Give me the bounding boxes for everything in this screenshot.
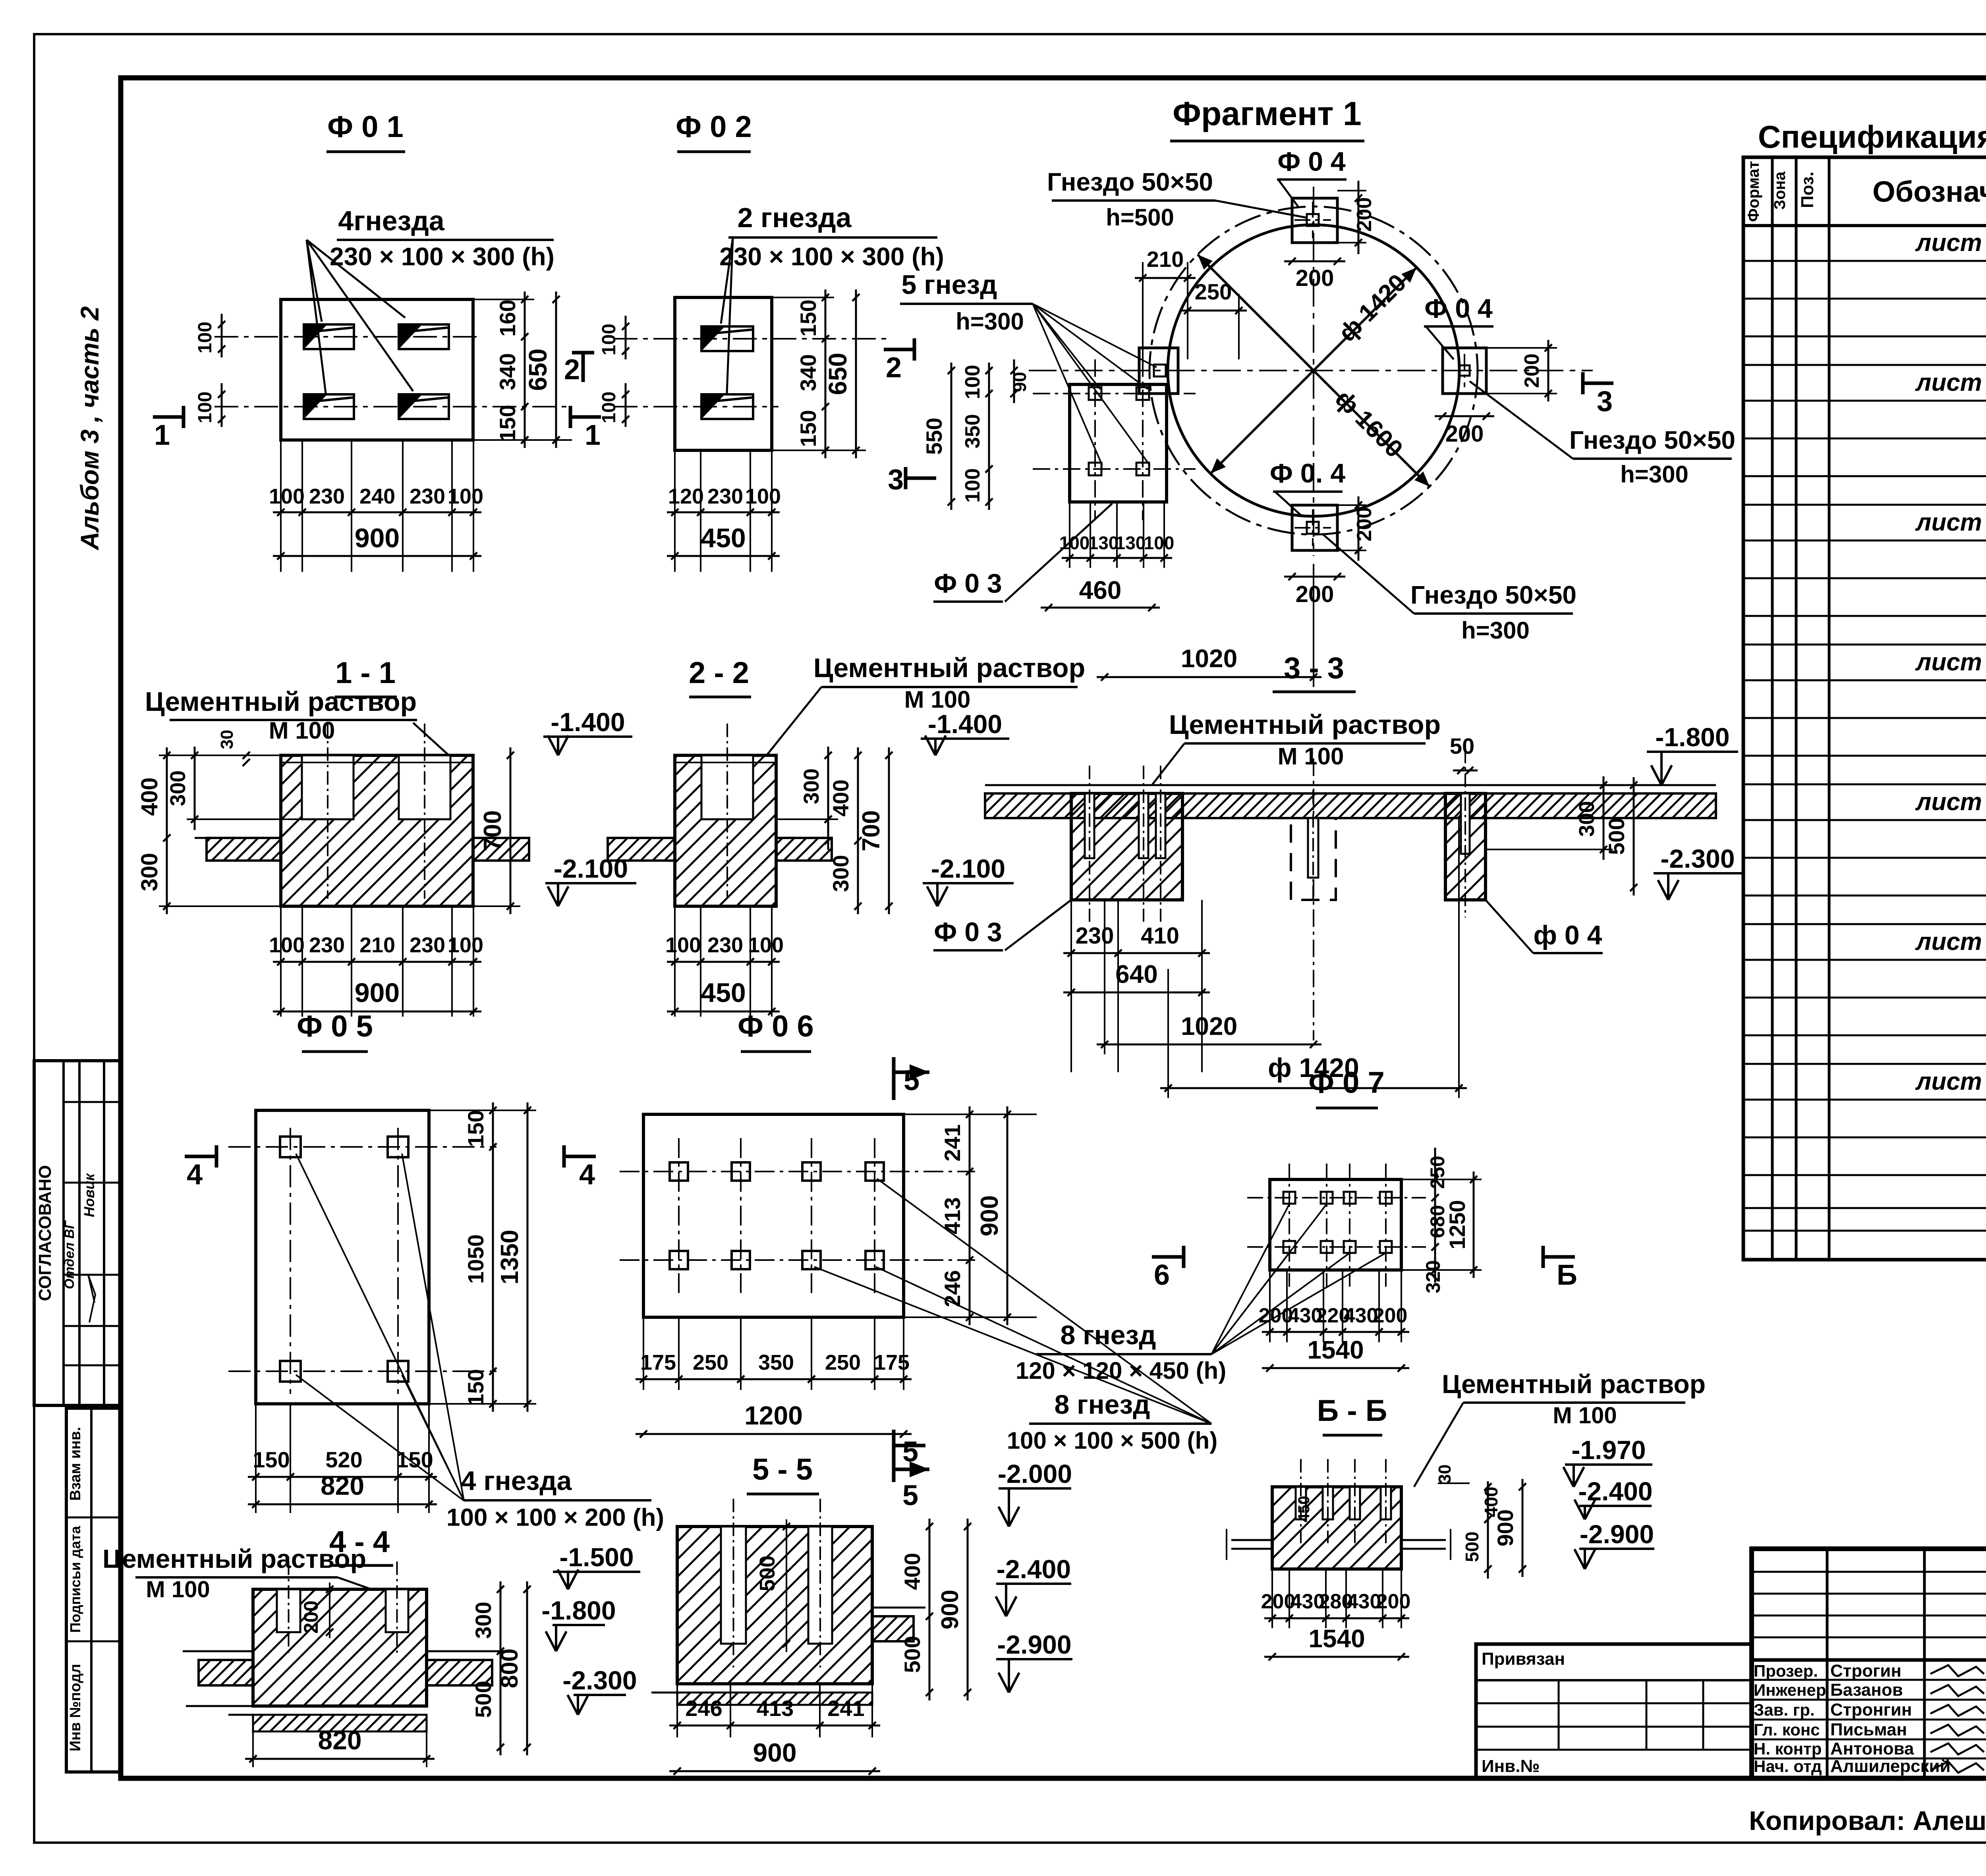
- dim 100 left upper Ф01: [221, 314, 223, 357]
- svg-text:241: 241: [827, 1696, 864, 1721]
- svg-text:210: 210: [359, 933, 395, 957]
- dims 300 500 left col right of 4-4: [500, 1581, 502, 1755]
- svg-text:Ф 0. 4: Ф 0. 4: [1270, 458, 1346, 488]
- plan Ф05 outline: [256, 1110, 429, 1404]
- svg-text:300: 300: [471, 1602, 496, 1639]
- svg-text:2 гнезда: 2 гнезда: [738, 202, 852, 233]
- svg-text:Отдел ВГ: Отдел ВГ: [62, 1220, 77, 1289]
- svg-text:-1.400: -1.400: [928, 709, 1002, 739]
- svg-text:300: 300: [137, 853, 162, 892]
- socket Ф02 top: [701, 326, 753, 351]
- svg-text:-1.970: -1.970: [1571, 1435, 1646, 1465]
- svg-text:-2.900: -2.900: [997, 1630, 1071, 1659]
- plan Ф02 outline: [675, 297, 772, 450]
- dims 250 680 320 right of Ф07: [1401, 1179, 1482, 1180]
- diagonal Ф1420 with arrows: [1211, 268, 1416, 473]
- floor slab right 2-2: [776, 838, 832, 861]
- dim 160 340 150 right of Ф01: [473, 299, 534, 300]
- dim 1540 under Ф07: [1262, 1367, 1409, 1369]
- leaders 4 гнезда Ф05: [296, 1154, 464, 1501]
- svg-text:100 × 100 × 500 (h): 100 × 100 × 500 (h): [1007, 1427, 1217, 1454]
- svg-text:500: 500: [1462, 1532, 1482, 1562]
- svg-text:200: 200: [1296, 581, 1334, 607]
- svg-text:250: 250: [693, 1351, 728, 1374]
- dim 100 left upper Ф02: [625, 316, 627, 359]
- dim 650 right of Ф02: [855, 290, 857, 458]
- dim 200 right of south footing: [1337, 504, 1366, 506]
- svg-text:500: 500: [755, 1556, 779, 1591]
- section mark 3 right of fragment: [1583, 382, 1613, 385]
- svg-text:100: 100: [599, 324, 620, 355]
- leaders from 5 гнезд to sockets: [1033, 304, 1100, 389]
- svg-text:250: 250: [1426, 1156, 1449, 1189]
- dim chain 230 410 under 3-3: [1070, 900, 1072, 1072]
- svg-text:500: 500: [1604, 818, 1629, 855]
- centrelines Ф06 rows: [620, 1171, 975, 1172]
- svg-text:Фрагмент 1: Фрагмент 1: [1173, 95, 1362, 132]
- svg-text:Инв №подл: Инв №подл: [67, 1664, 84, 1751]
- section mark 2 upper right of Ф01: [582, 353, 585, 382]
- socket slots 5-5: [721, 1527, 746, 1644]
- dim 50 above 3-3: [1453, 770, 1478, 772]
- dim 1200 under Ф06: [636, 1433, 912, 1435]
- svg-text:лист 26: лист 26: [1915, 1068, 1986, 1095]
- svg-text:100: 100: [1059, 533, 1090, 553]
- svg-text:h=300: h=300: [956, 308, 1024, 335]
- svg-text:Гнездо 50×50: Гнездо 50×50: [1047, 168, 1213, 196]
- svg-text:-1.500: -1.500: [559, 1542, 634, 1572]
- svg-text:8 гнезд: 8 гнезд: [1061, 1320, 1156, 1350]
- svg-text:М 100: М 100: [146, 1577, 210, 1602]
- steel stub right 6-6: [1401, 1539, 1446, 1541]
- svg-text:Б: Б: [1557, 1259, 1577, 1291]
- svg-text:Инженер: Инженер: [1754, 1681, 1826, 1699]
- svg-text:-2.300: -2.300: [562, 1666, 637, 1695]
- svg-text:-2.300: -2.300: [1660, 844, 1735, 873]
- svg-text:Формат: Формат: [1745, 161, 1762, 222]
- svg-text:230: 230: [707, 484, 743, 508]
- socket slot right 1-1: [399, 755, 450, 819]
- dim 200 under north footing: [1284, 261, 1345, 262]
- section 2-2 concrete block: [675, 755, 776, 906]
- svg-text:3: 3: [888, 464, 904, 496]
- svg-text:210: 210: [1147, 247, 1184, 272]
- svg-text:-1.400: -1.400: [551, 707, 625, 737]
- svg-text:300: 300: [166, 770, 190, 806]
- svg-text:150: 150: [796, 410, 821, 447]
- svg-text:Цементный раствор: Цементный раствор: [1442, 1369, 1706, 1399]
- svg-text:900: 900: [753, 1738, 796, 1767]
- floor slab right 4-4: [427, 1660, 492, 1685]
- socket squares Ф07 bottom row: [1283, 1241, 1295, 1253]
- plan Ф06 outline: [643, 1114, 904, 1317]
- svg-text:1: 1: [154, 419, 170, 451]
- svg-text:1200: 1200: [744, 1401, 803, 1430]
- dim 800 right of 4-4: [526, 1581, 528, 1755]
- dim 460 under Ф03: [1041, 607, 1160, 609]
- svg-text:250: 250: [1195, 279, 1232, 304]
- dim 300 socket left of 1-1: [187, 818, 302, 820]
- dim chain 175 250 350 250 175 under Ф06: [643, 1317, 644, 1390]
- mortar line 2-2: [675, 762, 776, 763]
- svg-text:230: 230: [309, 484, 345, 508]
- svg-text:1050: 1050: [463, 1234, 488, 1284]
- svg-text:-1.800: -1.800: [541, 1596, 616, 1625]
- plan Ф01 outline: [281, 299, 473, 440]
- dim 1250 right of Ф07: [1473, 1172, 1475, 1278]
- svg-text:550: 550: [922, 418, 947, 455]
- footing Ф04 north: [1292, 198, 1337, 243]
- left sidebar inventory strip: [66, 1408, 121, 1772]
- svg-text:820: 820: [321, 1471, 364, 1500]
- dim 900 right of Ф06: [1007, 1106, 1008, 1325]
- dim 900 under Ф01: [273, 555, 481, 557]
- dim chain 200 430 220 430 200 under Ф07: [1269, 1270, 1271, 1342]
- svg-text:Подписьи дата: Подписьи дата: [67, 1526, 83, 1633]
- leader lines to sockets of Ф01: [307, 240, 322, 322]
- svg-text:100: 100: [665, 933, 701, 957]
- svg-text:120: 120: [668, 484, 704, 508]
- svg-text:340: 340: [796, 354, 821, 391]
- svg-text:Гл. конс: Гл. конс: [1754, 1720, 1820, 1739]
- svg-text:Копировал: Алешикова: Копировал: Алешикова: [1749, 1806, 1986, 1836]
- svg-text:230 × 100 × 300 (h): 230 × 100 × 300 (h): [719, 242, 944, 271]
- svg-text:175: 175: [640, 1351, 676, 1374]
- svg-text:лист 26: лист 26: [1915, 788, 1986, 816]
- socket squares Ф06 top row: [670, 1162, 688, 1181]
- dim 200 under south footing: [1284, 576, 1345, 578]
- svg-text:Взам инв.: Взам инв.: [67, 1427, 84, 1501]
- section mark 5 above Ф06: [892, 1057, 896, 1100]
- diagonal Ф1600 with arrows: [1198, 255, 1430, 486]
- centrelines Ф07 columns: [1289, 1164, 1290, 1287]
- svg-text:h=300: h=300: [1620, 461, 1688, 488]
- svg-text:М 100: М 100: [1553, 1403, 1617, 1428]
- svg-text:2: 2: [886, 352, 902, 384]
- dim Ф1420 under 3-3: [1167, 969, 1169, 1098]
- svg-text:Письман: Письман: [1830, 1720, 1907, 1739]
- svg-text:100: 100: [1144, 533, 1175, 553]
- footing Ф04 east: [1443, 348, 1486, 394]
- svg-text:400: 400: [900, 1553, 925, 1590]
- slot in Ф04 cut: [1461, 793, 1470, 854]
- svg-text:650: 650: [524, 349, 552, 391]
- dim 1020 under fragment: [1313, 564, 1314, 687]
- svg-text:-2.000: -2.000: [998, 1459, 1072, 1488]
- dim chain 100 230 100 under section 2-2: [674, 906, 676, 1017]
- svg-text:Ф 0 2: Ф 0 2: [676, 110, 752, 144]
- svg-text:лист 26: лист 26: [1915, 369, 1986, 396]
- floor slab left 4-4: [199, 1660, 253, 1685]
- dim 1020 under 3-3: [1104, 900, 1105, 1054]
- section mark 5 flag at 5-5: [892, 1439, 896, 1482]
- circle Ф1420 solid: [1168, 225, 1459, 516]
- svg-text:246: 246: [685, 1696, 722, 1721]
- svg-text:2: 2: [564, 354, 580, 386]
- centreline upper row Ф01: [214, 336, 479, 338]
- svg-text:Ф 0 1: Ф 0 1: [327, 110, 404, 144]
- ground strip under 5-5: [651, 1692, 872, 1694]
- section 6-6 concrete block: [1272, 1487, 1401, 1569]
- centrelines Ф06 columns: [678, 1138, 680, 1295]
- svg-text:Цементный раствор: Цементный раствор: [813, 653, 1085, 683]
- svg-text:1020: 1020: [1181, 1012, 1237, 1040]
- dim 250 above Ф03: [1238, 294, 1240, 359]
- svg-text:Цементный раствор: Цементный раствор: [102, 1544, 366, 1573]
- specification table grid: [1743, 157, 1986, 1260]
- floor slab right 1-1: [473, 838, 529, 861]
- centrelines Ф03 plan: [1033, 393, 1196, 394]
- svg-text:Новик: Новик: [81, 1173, 97, 1217]
- svg-text:3 - 3: 3 - 3: [1284, 651, 1344, 685]
- svg-text:230: 230: [1076, 923, 1114, 949]
- svg-text:150: 150: [463, 1110, 488, 1147]
- svg-text:175: 175: [874, 1351, 910, 1374]
- svg-text:Стронгин: Стронгин: [1830, 1700, 1912, 1720]
- svg-text:200: 200: [1520, 353, 1544, 388]
- svg-text:100: 100: [269, 933, 305, 957]
- svg-text:Н. контр: Н. контр: [1754, 1739, 1822, 1758]
- svg-text:900: 900: [937, 1590, 963, 1629]
- svg-text:450: 450: [701, 978, 746, 1008]
- svg-text:Ф 0 3: Ф 0 3: [934, 568, 1002, 598]
- dim 450 under section 2-2: [667, 1011, 780, 1013]
- svg-text:Нач. отд: Нач. отд: [1754, 1757, 1822, 1776]
- svg-text:h=500: h=500: [1106, 204, 1174, 231]
- dim chain 120 230 100 under Ф02: [674, 450, 676, 572]
- section mark 6 left of Ф07: [1152, 1255, 1184, 1259]
- svg-text:130: 130: [1115, 533, 1146, 553]
- svg-text:100: 100: [448, 933, 483, 957]
- svg-text:100: 100: [448, 484, 483, 508]
- dim 200 right of north footing: [1337, 190, 1366, 191]
- svg-text:-2.900: -2.900: [1580, 1519, 1654, 1549]
- svg-text:Ф 0 7: Ф 0 7: [1308, 1066, 1385, 1100]
- svg-text:50: 50: [1450, 733, 1474, 759]
- dim 210 above Ф03: [1142, 262, 1144, 359]
- svg-text:520: 520: [325, 1447, 362, 1472]
- svg-text:3: 3: [1597, 386, 1613, 417]
- svg-text:Ф 0 3: Ф 0 3: [934, 917, 1002, 947]
- svg-text:413: 413: [757, 1696, 794, 1721]
- svg-text:400: 400: [137, 778, 162, 816]
- svg-text:800: 800: [496, 1648, 523, 1688]
- svg-text:Зона: Зона: [1771, 171, 1789, 210]
- svg-text:120 × 120 × 450 (h): 120 × 120 × 450 (h): [1016, 1357, 1226, 1384]
- horizontal centreline of fragment: [1029, 370, 1593, 371]
- dim 700 right of 2-2: [888, 747, 890, 914]
- mortar line 1-1: [281, 762, 473, 763]
- title block signature rows: [1752, 1679, 1986, 1681]
- svg-text:200: 200: [1445, 421, 1484, 447]
- title block outline: [1752, 1549, 1986, 1778]
- socket squares Ф07 top row: [1283, 1192, 1295, 1204]
- svg-text:Цементный раствор: Цементный раствор: [1169, 710, 1441, 740]
- slab top line 3-3: [985, 784, 1716, 786]
- svg-text:Строгин: Строгин: [1830, 1661, 1901, 1681]
- section mark 2 right of Ф02: [884, 348, 914, 351]
- svg-text:Ф 0 4: Ф 0 4: [1424, 293, 1493, 324]
- svg-text:100 × 100 × 200 (h): 100 × 100 × 200 (h): [446, 1504, 664, 1531]
- dim 100 left lower Ф01: [221, 383, 223, 427]
- svg-text:200: 200: [1373, 1304, 1408, 1327]
- dims 400 500 right of 5-5: [929, 1519, 931, 1700]
- socket squares Ф03: [1089, 387, 1101, 400]
- svg-text:Привязан: Привязан: [1482, 1649, 1565, 1669]
- svg-text:246: 246: [940, 1270, 965, 1307]
- dim chain 100 130 130 100 under Ф03: [1069, 502, 1070, 568]
- svg-text:1350: 1350: [496, 1230, 524, 1285]
- socket squares Ф06 bottom row: [670, 1251, 688, 1269]
- dashed middle footing 3-3: [1291, 818, 1336, 900]
- svg-text:-2.400: -2.400: [997, 1554, 1071, 1584]
- svg-text:лист 26: лист 26: [1915, 229, 1986, 257]
- svg-text:лист 26: лист 26: [1915, 928, 1986, 955]
- socket slot 2-2: [701, 755, 753, 819]
- steel stub left 6-6: [1231, 1539, 1272, 1541]
- dim 900 right of 6-6: [1522, 1479, 1524, 1577]
- svg-text:150: 150: [253, 1447, 290, 1472]
- centreline upper row Ф02: [614, 338, 890, 340]
- dim 820 under Ф05: [248, 1504, 437, 1505]
- leaders to sockets of Ф02: [721, 237, 733, 324]
- svg-text:200: 200: [300, 1600, 322, 1633]
- svg-text:650: 650: [823, 353, 852, 395]
- svg-text:5 гнезд: 5 гнезд: [902, 270, 997, 300]
- svg-text:СОГЛАСОВАНО: СОГЛАСОВАНО: [35, 1165, 55, 1301]
- svg-text:Зав. гр.: Зав. гр.: [1754, 1700, 1815, 1719]
- dim 1540 under 6-6: [1264, 1656, 1409, 1658]
- socket Ф01 bottom-right: [399, 394, 449, 419]
- floor slab left 2-2: [608, 838, 675, 861]
- svg-text:100: 100: [599, 392, 620, 423]
- svg-text:1250: 1250: [1445, 1200, 1470, 1250]
- svg-text:241: 241: [940, 1124, 965, 1161]
- svg-text:100: 100: [195, 392, 216, 423]
- svg-text:230: 230: [410, 484, 445, 508]
- svg-text:200: 200: [1353, 507, 1376, 542]
- footing Ф03 cut 3-3: [1071, 793, 1182, 900]
- floor slab left 1-1: [207, 838, 281, 861]
- section 4-4 concrete block: [253, 1589, 427, 1706]
- socket Ф01 bottom-left: [304, 394, 354, 419]
- dims 150 1050 150 right of Ф05: [429, 1110, 536, 1111]
- svg-text:Альбом 3 , часть 2: Альбом 3 , часть 2: [75, 306, 104, 551]
- plan Ф03 in fragment: [1070, 384, 1167, 502]
- dim 100 left lower Ф02: [625, 383, 627, 427]
- svg-text:5: 5: [902, 1436, 918, 1468]
- svg-text:350: 350: [758, 1351, 794, 1374]
- centreline lower row Ф01: [214, 406, 568, 407]
- svg-text:450: 450: [1295, 1496, 1313, 1523]
- svg-text:900: 900: [976, 1195, 1003, 1236]
- svg-text:6: 6: [1154, 1259, 1170, 1291]
- socket slot left 1-1: [302, 755, 354, 819]
- svg-text:500: 500: [471, 1681, 496, 1718]
- Привязан box: [1476, 1644, 1752, 1778]
- leaders 8 гнезд to Ф07 squares: [1211, 1204, 1289, 1354]
- svg-text:1: 1: [585, 419, 601, 451]
- svg-text:-2.400: -2.400: [1578, 1476, 1652, 1506]
- section mark 1 right of Ф01: [570, 415, 601, 419]
- leaders 8 гнезд to Ф06 squares: [814, 1267, 1211, 1424]
- svg-text:200: 200: [1376, 1590, 1411, 1613]
- svg-text:200: 200: [1296, 265, 1334, 291]
- dims 300 400 right of 2-2: [776, 818, 838, 820]
- svg-text:350: 350: [961, 414, 984, 449]
- svg-text:лист 26: лист 26: [1915, 509, 1986, 536]
- svg-text:5 - 5: 5 - 5: [752, 1453, 813, 1486]
- dims 300 500 right of 3-3: [1486, 849, 1613, 850]
- svg-text:640: 640: [1115, 960, 1158, 988]
- svg-text:100: 100: [269, 484, 305, 508]
- svg-text:230: 230: [707, 933, 743, 957]
- socket squares Ф05: [280, 1137, 301, 1157]
- socket Ф01 top-left: [304, 324, 354, 349]
- dim 550 left of Ф03: [950, 363, 952, 510]
- dim 820 under 4-4: [252, 1731, 254, 1767]
- svg-text:150: 150: [796, 299, 821, 336]
- svg-text:320: 320: [1422, 1260, 1444, 1293]
- svg-text:М 100: М 100: [269, 717, 335, 744]
- dim 1350 right of Ф05: [527, 1102, 529, 1412]
- svg-text:Б - Б: Б - Б: [1317, 1394, 1387, 1428]
- svg-text:Ф 0 6: Ф 0 6: [738, 1009, 814, 1043]
- svg-text:300: 300: [828, 855, 853, 892]
- dim chain 200 430 280 430 200 under 6-6: [1271, 1569, 1273, 1628]
- svg-text:-1.800: -1.800: [1655, 722, 1729, 752]
- svg-text:340: 340: [495, 353, 520, 390]
- svg-text:Ф 0 5: Ф 0 5: [297, 1009, 373, 1043]
- svg-text:1540: 1540: [1307, 1336, 1364, 1364]
- svg-text:30: 30: [1435, 1465, 1455, 1484]
- svg-text:300: 300: [800, 768, 823, 804]
- svg-text:Цементный раствор: Цементный раствор: [145, 687, 417, 717]
- centrelines Ф07 rows: [1247, 1197, 1426, 1199]
- dim chain 100 230 210 230 100 under section 1-1: [280, 906, 282, 1017]
- svg-text:Базанов: Базанов: [1830, 1680, 1903, 1700]
- svg-text:413: 413: [940, 1197, 965, 1234]
- svg-text:200: 200: [1353, 197, 1376, 232]
- svg-text:700: 700: [858, 810, 885, 851]
- svg-text:Спецификация фундаментов под о: Спецификация фундаментов под оборудовани…: [1758, 119, 1986, 154]
- svg-text:4: 4: [579, 1159, 595, 1191]
- dim 200 right of east footing: [1486, 347, 1557, 349]
- svg-text:4: 4: [187, 1159, 203, 1191]
- plan Ф07 outline: [1270, 1179, 1401, 1270]
- svg-text:-2.100: -2.100: [931, 854, 1005, 883]
- dim chain 246 413 241 under 5-5: [676, 1684, 678, 1737]
- svg-text:лист 26: лист 26: [1915, 648, 1986, 676]
- svg-text:1 - 1: 1 - 1: [335, 656, 396, 690]
- svg-text:2 - 2: 2 - 2: [689, 656, 749, 690]
- dim 900 right of 5-5: [967, 1519, 969, 1700]
- svg-text:1020: 1020: [1181, 644, 1237, 673]
- dims 400 500 right of 6-6: [1487, 1481, 1489, 1579]
- svg-text:700: 700: [479, 810, 506, 851]
- svg-text:240: 240: [359, 484, 395, 508]
- svg-text:Гнездо 50×50: Гнездо 50×50: [1410, 581, 1576, 609]
- svg-text:150: 150: [495, 405, 520, 442]
- svg-text:Прозер.: Прозер.: [1754, 1662, 1818, 1680]
- centreline lower row Ф02: [614, 406, 779, 407]
- svg-text:130: 130: [1088, 533, 1119, 553]
- signature scribbles: [1930, 1665, 1984, 1676]
- svg-text:ф 0 4: ф 0 4: [1534, 920, 1602, 950]
- socket Ф01 top-right: [399, 324, 449, 349]
- svg-text:1540: 1540: [1308, 1624, 1365, 1653]
- socket slots 6-6: [1296, 1487, 1306, 1519]
